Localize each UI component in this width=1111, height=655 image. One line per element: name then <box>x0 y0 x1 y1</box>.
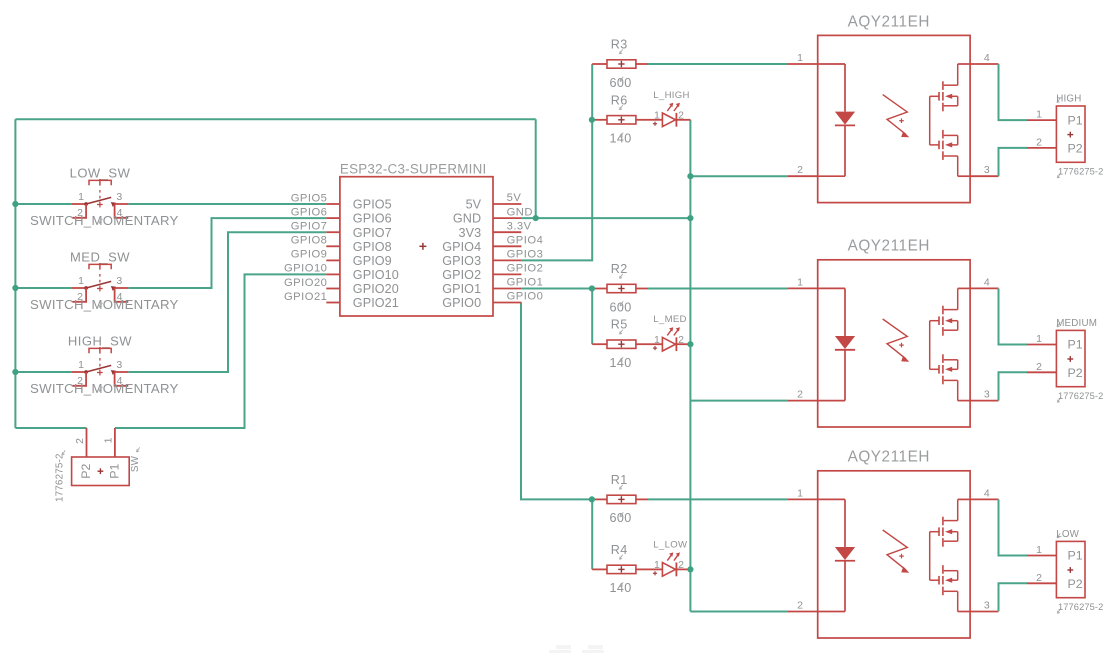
wire R1 to relay3 pin1 <box>648 498 788 500</box>
wire MED_SW pin3 to GPIO6 <box>128 218 326 288</box>
svg-text:SWITCH_MOMENTARY: SWITCH_MOMENTARY <box>30 297 179 312</box>
wire R2 to relay2 pin1 <box>648 288 788 290</box>
junction <box>589 117 595 123</box>
svg-text:600: 600 <box>609 300 631 314</box>
switch MED_SW <box>30 250 179 312</box>
resistor R1 600 <box>592 473 648 525</box>
connector body MEDIUM <box>1027 344 1056 346</box>
svg-text:3.3V: 3.3V <box>507 220 532 232</box>
svg-text:GPIO20: GPIO20 <box>353 282 399 296</box>
ESP32 left pin GPIO5 <box>291 192 392 211</box>
wire <box>998 288 1000 344</box>
wire R3 to relay1 pin1 <box>648 63 788 65</box>
svg-text:140: 140 <box>609 581 631 595</box>
svg-text:R6: R6 <box>611 93 628 107</box>
svg-text:GPIO21: GPIO21 <box>284 291 327 303</box>
svg-text:600: 600 <box>609 511 631 525</box>
svg-text:140: 140 <box>609 132 631 146</box>
connector body LOW <box>1027 555 1056 557</box>
svg-text:P2: P2 <box>1067 577 1082 591</box>
connector body HIGH <box>1027 119 1056 121</box>
svg-text:3: 3 <box>116 191 122 203</box>
svg-text:1776275-2: 1776275-2 <box>1058 167 1103 177</box>
junction <box>12 201 18 207</box>
ESP32 left pin GPIO9 <box>291 249 392 268</box>
svg-text:1776275-2: 1776275-2 <box>55 453 66 502</box>
LED L_LOW <box>648 539 690 576</box>
svg-text:3: 3 <box>116 275 122 287</box>
svg-text:2: 2 <box>1036 137 1042 149</box>
resistor R3 600 <box>592 38 648 90</box>
wire GPIO0 down <box>521 303 592 500</box>
opto-relay AQY211EH <box>788 13 999 202</box>
LED L_MED <box>648 314 690 351</box>
wire LOW_SW pin1 <box>15 203 72 205</box>
junction <box>589 285 595 291</box>
resistor R5 140 <box>592 318 648 370</box>
connector J LOW 1776275-2 <box>998 499 1104 613</box>
svg-text:R5: R5 <box>611 318 628 332</box>
wire GND ESP32 to relays <box>521 217 690 219</box>
wire GPIO1 to R2 <box>521 288 592 290</box>
svg-text:1: 1 <box>654 110 660 122</box>
svg-text:GPIO8: GPIO8 <box>291 235 328 247</box>
wire relay common vertical <box>689 120 691 612</box>
ESP32 left pin GPIO20 <box>284 277 399 296</box>
wire GND right vertical to ESP32 GND <box>535 119 537 218</box>
svg-text:5V: 5V <box>507 192 522 204</box>
wire R2 branch down to R5 <box>591 289 593 345</box>
svg-text:GPIO5: GPIO5 <box>353 198 392 212</box>
svg-text:P1: P1 <box>1067 113 1082 127</box>
svg-text:P2: P2 <box>79 464 93 479</box>
svg-text:2: 2 <box>74 438 86 444</box>
svg-text:AQY211EH: AQY211EH <box>848 13 930 30</box>
svg-text:1: 1 <box>797 276 803 288</box>
wire to relay3 pin2 <box>690 611 788 613</box>
svg-text:GPIO0: GPIO0 <box>442 296 481 310</box>
svg-text:SWITCH_MOMENTARY: SWITCH_MOMENTARY <box>30 381 179 396</box>
svg-text:1776275-2: 1776275-2 <box>1058 602 1103 612</box>
svg-text:P1: P1 <box>1067 338 1082 352</box>
svg-text:2: 2 <box>678 559 684 571</box>
svg-text:1: 1 <box>78 359 84 371</box>
connector J HIGH 1776275-2 <box>998 64 1104 178</box>
svg-text:GPIO7: GPIO7 <box>291 221 328 233</box>
ESP32 right pin GND <box>453 206 533 225</box>
svg-text:GND: GND <box>453 212 481 226</box>
ESP32 right pin GPIO0 <box>442 291 543 310</box>
junction <box>687 341 693 347</box>
svg-text:2: 2 <box>797 389 803 401</box>
svg-text:2: 2 <box>797 600 803 612</box>
svg-text:GPIO10: GPIO10 <box>353 268 399 282</box>
svg-text:AQY211EH: AQY211EH <box>848 238 930 255</box>
junction <box>533 215 539 221</box>
svg-text:L_LOW: L_LOW <box>653 539 688 550</box>
svg-text:AQY211EH: AQY211EH <box>848 449 930 466</box>
switch LOW_SW <box>30 166 179 228</box>
wire GND bottom to connector pin2 <box>15 427 86 429</box>
ESP32 left pin GPIO10 <box>284 263 399 282</box>
svg-text:1776275-2: 1776275-2 <box>1058 391 1103 401</box>
wire HIGH_SW pin3 to GPIO7 <box>128 232 326 372</box>
resistor R6 140 <box>592 93 648 145</box>
svg-text:R1: R1 <box>611 473 628 487</box>
svg-text:1: 1 <box>654 559 660 571</box>
svg-text:GPIO2: GPIO2 <box>442 268 481 282</box>
ESP32 left pin GPIO6 <box>291 206 392 225</box>
junction <box>687 215 693 221</box>
svg-text:1: 1 <box>1036 109 1042 121</box>
svg-text:GPIO5: GPIO5 <box>291 192 328 204</box>
svg-text:HIGH_SW: HIGH_SW <box>68 334 132 349</box>
svg-text:1: 1 <box>1036 544 1042 556</box>
svg-text:P2: P2 <box>1067 366 1082 380</box>
junction <box>687 173 693 179</box>
switch HIGH_SW <box>30 334 179 396</box>
svg-text:GPIO7: GPIO7 <box>353 226 392 240</box>
svg-text:GPIO6: GPIO6 <box>353 212 392 226</box>
svg-text:GPIO10: GPIO10 <box>284 263 327 275</box>
wire SW connector pin1 to GPIO10 <box>115 274 326 428</box>
svg-text:GPIO9: GPIO9 <box>291 249 328 261</box>
svg-text:2: 2 <box>678 334 684 346</box>
svg-text:GPIO1: GPIO1 <box>507 277 544 289</box>
svg-text:4: 4 <box>984 487 990 499</box>
wire GPIO3 to R3/R6 <box>521 64 592 260</box>
svg-text:MED_SW: MED_SW <box>70 250 130 265</box>
ESP32 right pin GPIO1 <box>442 277 543 296</box>
ESP32 left pin GPIO21 <box>284 291 399 310</box>
svg-text:3: 3 <box>116 359 122 371</box>
svg-text:3: 3 <box>984 164 990 176</box>
opto-relay AQY211EH <box>788 238 999 427</box>
svg-text:R2: R2 <box>611 262 628 276</box>
wire HIGH_SW pin1 <box>15 371 72 373</box>
svg-text:GPIO6: GPIO6 <box>291 206 328 218</box>
svg-text:R3: R3 <box>611 38 628 52</box>
ESP32 right pin GPIO4 <box>442 235 543 254</box>
module U1 ESP32-C3-SUPERMINI <box>340 161 493 316</box>
svg-text:L_MED: L_MED <box>653 314 687 325</box>
svg-text:GPIO9: GPIO9 <box>353 254 392 268</box>
svg-text:R4: R4 <box>611 543 628 557</box>
svg-text:GPIO20: GPIO20 <box>284 277 327 289</box>
ESP32 right pin GPIO2 <box>442 263 543 282</box>
svg-text:GPIO1: GPIO1 <box>442 282 481 296</box>
svg-text:GPIO21: GPIO21 <box>353 296 399 310</box>
faint cropped text bottom <box>549 645 604 653</box>
svg-text:600: 600 <box>609 76 631 90</box>
svg-text:GPIO8: GPIO8 <box>353 240 392 254</box>
ESP32 right pin 5V <box>466 192 522 211</box>
svg-text:4: 4 <box>984 52 990 64</box>
svg-text:2: 2 <box>678 110 684 122</box>
svg-text:LOW_SW: LOW_SW <box>70 166 131 181</box>
ESP32 right pin GPIO3 <box>442 249 543 268</box>
ESP32 left pin GPIO7 <box>291 221 392 240</box>
wire GND left vertical <box>14 119 16 428</box>
svg-text:5V: 5V <box>466 198 482 212</box>
svg-text:1: 1 <box>797 52 803 64</box>
svg-text:ESP32-C3-SUPERMINI: ESP32-C3-SUPERMINI <box>340 161 487 176</box>
svg-text:P2: P2 <box>1067 142 1082 156</box>
opto-relay AQY211EH <box>788 449 999 638</box>
resistor R2 600 <box>592 262 648 314</box>
junction <box>687 566 693 572</box>
svg-text:LOW: LOW <box>1056 529 1079 540</box>
svg-text:GND: GND <box>507 206 533 218</box>
svg-text:GPIO4: GPIO4 <box>507 235 544 247</box>
wire GND top horizontal <box>15 118 535 120</box>
svg-text:140: 140 <box>609 356 631 370</box>
svg-text:1: 1 <box>78 275 84 287</box>
wire <box>998 499 1000 555</box>
svg-text:MEDIUM: MEDIUM <box>1056 318 1097 329</box>
svg-text:1: 1 <box>78 191 84 203</box>
svg-text:1: 1 <box>654 334 660 346</box>
svg-text:2: 2 <box>797 164 803 176</box>
svg-text:3V3: 3V3 <box>458 226 481 240</box>
svg-text:L_HIGH: L_HIGH <box>653 90 689 101</box>
junction <box>12 369 18 375</box>
svg-text:HIGH: HIGH <box>1056 94 1081 105</box>
connector SW 1776275-2 <box>55 428 141 502</box>
svg-text:3: 3 <box>984 389 990 401</box>
svg-text:1: 1 <box>797 487 803 499</box>
wire R1 branch down to R4 <box>591 499 593 569</box>
svg-text:P1: P1 <box>1067 549 1082 563</box>
wire LOW_SW pin3 to GPIO5 <box>128 203 326 205</box>
svg-text:2: 2 <box>1036 572 1042 584</box>
svg-text:1: 1 <box>103 437 115 443</box>
svg-text:3: 3 <box>984 600 990 612</box>
svg-text:2: 2 <box>1036 361 1042 373</box>
wire MED_SW pin1 <box>15 287 72 289</box>
ESP32 right pin 3V3 <box>458 220 531 239</box>
svg-text:P1: P1 <box>108 464 122 479</box>
junction <box>12 285 18 291</box>
connector J MEDIUM 1776275-2 <box>998 288 1104 402</box>
svg-text:SWITCH_MOMENTARY: SWITCH_MOMENTARY <box>30 213 179 228</box>
svg-text:1: 1 <box>1036 333 1042 345</box>
wire relay2 pin2 branch <box>690 400 788 402</box>
ESP32 left pin GPIO8 <box>291 235 392 254</box>
svg-text:GPIO4: GPIO4 <box>442 240 481 254</box>
wire <box>998 64 1000 120</box>
svg-text:SW: SW <box>130 455 141 472</box>
wire relay1 pin2 branch <box>690 175 788 177</box>
LED L_HIGH <box>648 90 690 127</box>
svg-text:4: 4 <box>984 276 990 288</box>
resistor R4 140 <box>592 543 648 595</box>
svg-text:GPIO3: GPIO3 <box>442 254 481 268</box>
svg-text:GPIO3: GPIO3 <box>507 249 544 261</box>
svg-text:GPIO0: GPIO0 <box>507 291 544 303</box>
svg-text:GPIO2: GPIO2 <box>507 263 544 275</box>
junction <box>589 496 595 502</box>
